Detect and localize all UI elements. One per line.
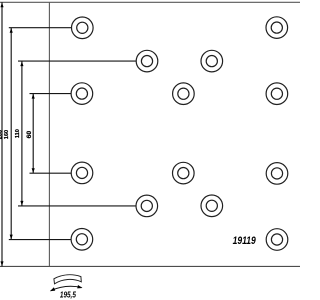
arrow down dim 60 [32, 168, 35, 173]
hole H13 row6 left [71, 229, 93, 251]
lining cross-section symbol (curved band) [54, 275, 81, 284]
leader row1 [9, 27, 72, 29]
hole H6 row3 middle [173, 83, 195, 105]
dimension line 110 (x=21.9) [21, 61, 23, 206]
svg-text:19119: 19119 [233, 235, 257, 247]
hole H7 row3 right [266, 83, 288, 105]
plate bottom edge [0, 265, 300, 267]
leader row4 [30, 172, 72, 174]
hole H10 row4 right [266, 163, 288, 185]
dimension line 200 (outer, x=2) [1, 2, 3, 266]
hole H12 row5 right [201, 195, 223, 217]
leader row6 [9, 239, 71, 241]
dimension line 60 (x=33.2) [32, 94, 34, 174]
arrow up dim 200 [0, 3, 3, 8]
svg-text:110: 110 [15, 129, 21, 138]
arrow down dim 110 [20, 201, 23, 206]
arrow up dim 60 [32, 94, 35, 99]
hole H3 row2 left [136, 50, 158, 72]
leader row2 [18, 60, 136, 62]
curvature arrow (double headed arc) [51, 286, 82, 290]
hole H11 row5 left [136, 195, 158, 217]
hole H14 row6 right [266, 229, 288, 251]
svg-text:195,5: 195,5 [60, 291, 77, 300]
plate left edge [48, 2, 50, 266]
arrowhead right of curvature arrow [77, 285, 82, 288]
hole H2 row1 right [266, 17, 288, 39]
hole H1 row1 left [72, 17, 94, 39]
dimension line 160 (x=11.2) [10, 28, 12, 240]
leader row5 [18, 205, 136, 207]
plate top edge [0, 1, 300, 3]
leader row3 [30, 93, 72, 95]
arrow up dim 110 [20, 61, 23, 66]
hole H4 row2 right [201, 50, 223, 72]
arrow down dim 160 [10, 235, 13, 240]
arrow up dim 160 [10, 28, 13, 33]
hole H8 row4 left [71, 162, 93, 184]
arrow down dim 200 [0, 261, 3, 266]
svg-text:60: 60 [26, 131, 33, 139]
arrowhead left of curvature arrow [50, 287, 55, 291]
svg-text:160: 160 [4, 130, 10, 139]
hole H9 row4 middle [173, 162, 195, 184]
hole H5 row3 left [71, 83, 93, 105]
svg-text:200: 200 [0, 130, 3, 139]
